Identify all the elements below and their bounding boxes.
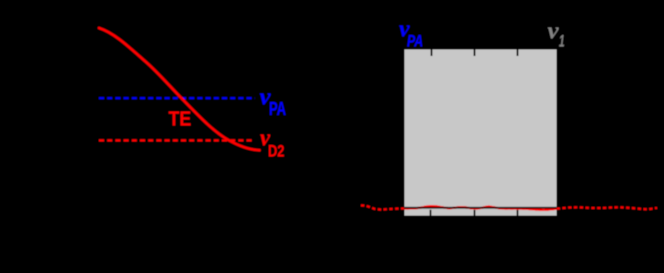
svg-text:PA: PA [407,31,423,50]
gray shaded region [405,50,557,216]
blue dashed line nu_PA level [99,97,255,99]
top ticks [431,50,433,57]
svg-text:TE: TE [169,109,192,131]
svg-text:D2: D2 [268,141,284,160]
red sigmoid curve [99,28,260,150]
black baseline over red trace [405,207,557,209]
svg-text:ν: ν [548,18,559,44]
svg-text:1: 1 [559,32,565,51]
red dashed line nu_D2 level [99,139,254,141]
svg-text:PA: PA [269,99,286,119]
solid red trace inside shaded region [361,205,657,209]
bottom ticks [430,210,432,216]
